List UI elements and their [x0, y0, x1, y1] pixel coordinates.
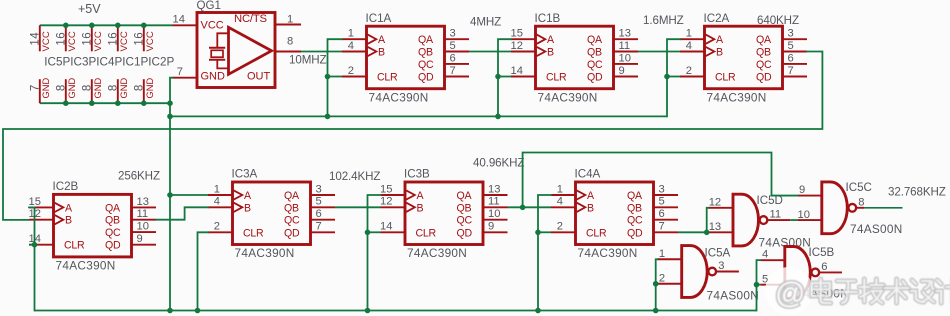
svg-text:3: 3 — [718, 260, 724, 272]
wire IC5D pin13 tap — [707, 231, 709, 233]
pin 12 (B) of IC1B — [511, 40, 536, 52]
svg-text:5: 5 — [316, 196, 322, 208]
pin 3 (QA) of IC2A — [783, 28, 808, 40]
power symbol IC4P GND pin 8 — [81, 78, 103, 104]
svg-text:IC5B: IC5B — [809, 246, 835, 259]
svg-text:5: 5 — [450, 40, 456, 52]
svg-text:VCC: VCC — [119, 31, 130, 51]
IC IC4A 74AC390N counter body — [576, 182, 654, 245]
svg-text:4: 4 — [348, 40, 354, 52]
svg-text:B: B — [417, 202, 424, 214]
svg-text:B: B — [65, 215, 72, 227]
svg-text:4: 4 — [762, 249, 768, 261]
svg-text:3: 3 — [788, 28, 794, 40]
svg-text:B: B — [244, 202, 251, 214]
wire 40.96KHZ: tap from B net up and over to IC5C pin 9 — [523, 153, 798, 208]
pin 2 (CLR) of IC3A — [208, 221, 233, 233]
junction on GND rail — [63, 100, 69, 106]
svg-text:16: 16 — [55, 32, 67, 46]
pin 10 input of IC5C — [797, 209, 822, 221]
junction on VCC rail — [141, 23, 147, 29]
svg-text:6: 6 — [821, 261, 827, 273]
svg-text:8: 8 — [55, 84, 67, 91]
junction gnd vertical / row1 CLR rail — [167, 114, 173, 120]
svg-text:VCC: VCC — [41, 31, 52, 51]
svg-text:IC5A: IC5A — [705, 247, 731, 260]
junction IC2B CLR — [32, 242, 38, 248]
svg-text:8: 8 — [107, 84, 119, 91]
svg-text:1: 1 — [287, 13, 293, 25]
wire GND rail — [40, 102, 170, 104]
svg-text:IC2A: IC2A — [704, 12, 730, 25]
svg-text:A: A — [417, 190, 425, 202]
svg-text:QA: QA — [756, 34, 772, 46]
pin 9 (QD) of IC2B — [132, 233, 157, 245]
pin 11 (QB) of IC1B — [614, 40, 639, 52]
power symbol IC2P GND pin 8 — [133, 78, 155, 104]
svg-text:2: 2 — [686, 65, 692, 77]
pin 15 (A) of IC1B — [511, 28, 536, 40]
junction IC1A vertical / CLR rail — [325, 114, 331, 120]
power symbol IC3P GND pin 8 — [55, 78, 77, 104]
svg-text:B: B — [547, 47, 554, 59]
svg-text:IC2B: IC2B — [53, 180, 79, 193]
junction IC4A CLR — [535, 230, 541, 236]
svg-text:3: 3 — [450, 28, 456, 40]
svg-text:QC: QC — [587, 59, 603, 71]
junction IC3B CLR — [365, 230, 371, 236]
svg-text:QD: QD — [457, 227, 473, 239]
junction gnd vertical / bottom rail — [167, 308, 173, 314]
svg-text:12: 12 — [709, 196, 721, 208]
pin 14 (CLR) of IC1B — [511, 65, 536, 77]
svg-text:9: 9 — [137, 233, 143, 245]
pin 1 (A) of IC3A — [208, 183, 233, 195]
pin 4 (B) of IC4A — [551, 196, 576, 208]
svg-text:8: 8 — [81, 84, 93, 91]
svg-text:40.96KHZ: 40.96KHZ — [473, 157, 524, 170]
svg-text:4MHZ: 4MHZ — [470, 16, 501, 29]
svg-text:14: 14 — [380, 221, 392, 233]
svg-text:12: 12 — [511, 40, 523, 52]
svg-text:8: 8 — [133, 84, 145, 91]
wire 10MHZ: QG1 OUT to IC1A B input — [301, 51, 342, 53]
pin 2 (CLR) of IC2A — [680, 65, 705, 77]
svg-text:IC5P: IC5P — [44, 55, 70, 68]
svg-text:7: 7 — [659, 221, 665, 233]
svg-text:QA: QA — [418, 34, 434, 46]
svg-text:12: 12 — [380, 196, 392, 208]
svg-text:640KHZ: 640KHZ — [757, 14, 799, 27]
svg-text:10: 10 — [488, 208, 500, 220]
svg-text:GND: GND — [119, 78, 129, 99]
wire IC2B CLR tap — [29, 244, 35, 246]
junction IC3A CLR vertical / bottom rail — [195, 308, 201, 314]
power symbol IC1P VCC pin 16 — [107, 25, 130, 51]
svg-text:13: 13 — [488, 183, 500, 195]
svg-text:QC: QC — [627, 215, 643, 227]
svg-text:+5V: +5V — [78, 2, 101, 16]
svg-text:74AS00N: 74AS00N — [850, 222, 903, 236]
wire IC1B input vertical — [498, 39, 511, 116]
svg-text:11: 11 — [619, 40, 631, 52]
pin 1 (A) of IC4A — [551, 183, 576, 195]
svg-text:7: 7 — [177, 66, 183, 78]
pin 14 (CLR) of IC2B — [29, 233, 54, 245]
wire 640KHZ: IC2A QB down, across, to IC2B B input — [3, 52, 822, 220]
pin 5 (QB) of IC1A — [445, 40, 470, 52]
pin 1 (A) of IC2A — [680, 28, 705, 40]
svg-text:10: 10 — [619, 52, 631, 64]
svg-text:GND: GND — [67, 78, 77, 99]
svg-text:QB: QB — [587, 47, 602, 59]
pin 4 (B) of IC1A — [342, 40, 367, 52]
wire IC5D input tie vertical — [707, 208, 709, 233]
pin 1 input of IC5A — [657, 248, 682, 260]
svg-text:74AC390N: 74AC390N — [538, 90, 598, 104]
wire 102.4KHZ: IC3A QB to IC3B B input — [335, 206, 381, 208]
svg-text:A: A — [378, 34, 386, 46]
svg-text:2: 2 — [659, 273, 665, 285]
wire IC1B CLR tap — [498, 76, 511, 78]
svg-text:IC4P: IC4P — [96, 55, 122, 68]
svg-text:B: B — [378, 47, 385, 59]
pin 7 (QD) of IC4A — [654, 221, 679, 233]
svg-text:QC: QC — [756, 59, 772, 71]
svg-text:GND: GND — [145, 78, 155, 99]
power symbol IC4P VCC pin 16 — [81, 25, 104, 51]
wire IC5A input tie vertical to bottom rail — [656, 259, 658, 310]
svg-text:QC: QC — [418, 59, 434, 71]
svg-text:4: 4 — [686, 40, 692, 52]
svg-text:QA: QA — [587, 34, 603, 46]
pin 13 (QA) of IC1B — [614, 28, 639, 40]
svg-text:15: 15 — [380, 183, 392, 195]
watermark translucent disc — [765, 267, 813, 315]
NAND gate IC5C 74AS00N body — [822, 182, 856, 234]
svg-text:QB: QB — [105, 215, 120, 227]
svg-text:6: 6 — [316, 208, 322, 220]
svg-text:6: 6 — [450, 52, 456, 64]
pin 1 (A) of IC1A — [342, 28, 367, 40]
oscillator QG1 body — [197, 13, 275, 88]
svg-text:QG1: QG1 — [197, 0, 221, 12]
svg-text:QD: QD — [627, 227, 643, 239]
svg-text:10: 10 — [798, 209, 810, 221]
pin 5 (QB) of IC2A — [783, 40, 808, 52]
svg-text:B: B — [587, 202, 594, 214]
svg-text:QD: QD — [587, 72, 603, 84]
pin 9 (QD) of IC1B — [614, 65, 639, 77]
pin 10 (QC) of IC1B — [614, 52, 639, 64]
svg-text:@: @ — [775, 277, 805, 310]
pin 11 output of IC5D — [767, 209, 791, 221]
junction IC4A vertical / bottom rail — [535, 308, 541, 314]
junction on VCC rail — [63, 23, 69, 29]
svg-text:7: 7 — [450, 65, 456, 77]
svg-text:QC: QC — [284, 215, 300, 227]
svg-text:74AS00N: 74AS00N — [707, 289, 760, 303]
svg-text:13: 13 — [619, 28, 631, 40]
wire bottom GND rail — [35, 310, 757, 312]
svg-text:74AC390N: 74AC390N — [707, 90, 767, 104]
svg-text:QB: QB — [627, 202, 642, 214]
junction on GND rail — [115, 100, 121, 106]
svg-text:10: 10 — [137, 221, 149, 233]
svg-text:9: 9 — [799, 184, 805, 196]
wire IC4A QD to IC5D inputs — [678, 231, 707, 233]
svg-text:CLR: CLR — [64, 240, 85, 252]
svg-text:QD: QD — [756, 72, 772, 84]
junction 40.96KHZ tap — [520, 205, 526, 211]
pin 9 (QD) of IC3B — [483, 221, 508, 233]
svg-text:74AC390N: 74AC390N — [56, 259, 116, 273]
IC IC3A 74AC390N counter body — [233, 182, 311, 245]
svg-text:1: 1 — [557, 183, 563, 195]
svg-text:A: A — [65, 202, 73, 214]
svg-text:IC1B: IC1B — [535, 12, 561, 25]
wire 256KHZ: IC2B QB jog up to IC3A B input — [156, 207, 208, 219]
pin 4 (B) of IC2A — [680, 40, 705, 52]
pin 2 (CLR) of IC1A — [342, 65, 367, 77]
svg-text:CLR: CLR — [546, 72, 567, 84]
pin 8 (OUT) of QG1 — [275, 36, 301, 52]
junction IC1B CLR — [495, 74, 501, 80]
pin 7 (QD) of IC1A — [445, 65, 470, 77]
svg-text:QB: QB — [457, 202, 472, 214]
power symbol IC2P VCC pin 16 — [133, 25, 156, 51]
pin 11 (QB) of IC3B — [483, 196, 508, 208]
wire IC1A CLR tap — [328, 76, 343, 78]
pin 14 (VCC) of QG1 — [173, 13, 198, 25]
power symbol IC5P GND pin 7 — [29, 78, 51, 104]
svg-text:A: A — [716, 34, 724, 46]
svg-text:11: 11 — [137, 208, 149, 220]
svg-text:QA: QA — [457, 190, 473, 202]
svg-text:16: 16 — [81, 32, 93, 46]
wire IC5B input tie vertical from bottom rail — [757, 260, 761, 310]
svg-text:8: 8 — [858, 196, 864, 208]
junction gnd vertical / IC3A A input — [167, 192, 173, 198]
wire IC1A input vertical (A to CLR rail) — [328, 39, 343, 116]
svg-text:CLR: CLR — [715, 72, 736, 84]
wire IC3B input vertical — [368, 195, 381, 311]
svg-text:GND: GND — [201, 71, 226, 83]
wire IC4A CLR tap — [538, 231, 551, 233]
svg-text:11: 11 — [488, 196, 500, 208]
IC IC3B 74AC390N counter body — [405, 182, 483, 245]
svg-text:QB: QB — [418, 47, 433, 59]
svg-text:1: 1 — [214, 183, 220, 195]
power symbol IC1P GND pin 8 — [107, 78, 129, 104]
svg-text:A: A — [587, 190, 595, 202]
pin 6 (QC) of IC1A — [445, 52, 470, 64]
pin 4 input of IC5B — [760, 249, 785, 261]
wire row1 CLR rail — [170, 115, 667, 117]
NAND gate IC5B 74AS00N body — [785, 247, 819, 299]
svg-text:6: 6 — [788, 52, 794, 64]
junction on VCC rail — [115, 23, 121, 29]
svg-text:B: B — [716, 47, 723, 59]
svg-text:16: 16 — [107, 32, 119, 46]
pin 5 (QB) of IC3A — [311, 196, 336, 208]
svg-text:13: 13 — [709, 221, 721, 233]
svg-text:15: 15 — [29, 196, 41, 208]
pin 7 (GND) of QG1 — [173, 66, 198, 78]
svg-text:QA: QA — [284, 190, 300, 202]
svg-text:VCC: VCC — [67, 31, 78, 51]
svg-text:IC3A: IC3A — [232, 168, 258, 181]
svg-text:A: A — [244, 190, 252, 202]
power symbol IC5P VCC pin 14 — [29, 25, 52, 51]
svg-text:4: 4 — [557, 196, 563, 208]
svg-text:13: 13 — [137, 196, 149, 208]
pin 9 input of IC5C — [797, 184, 822, 196]
svg-text:2: 2 — [557, 221, 563, 233]
pin 6 (QC) of IC4A — [654, 208, 679, 220]
wire 4MHZ: IC1A QB to IC1B B input — [469, 51, 511, 53]
svg-text:7: 7 — [788, 65, 794, 77]
svg-text:10MHZ: 10MHZ — [289, 54, 327, 67]
wire IC5D output to IC5C pin 10 — [790, 219, 797, 221]
svg-text:VCC: VCC — [93, 31, 104, 51]
wire IC5A pin2 tap — [656, 283, 658, 285]
pin 3 (QA) of IC3A — [311, 183, 336, 195]
svg-text:IC3B: IC3B — [404, 168, 430, 181]
svg-text:9: 9 — [619, 65, 625, 77]
svg-text:14: 14 — [173, 13, 185, 25]
svg-text:7: 7 — [316, 221, 322, 233]
pin 12 (B) of IC2B — [29, 208, 54, 220]
svg-text:IC4A: IC4A — [575, 168, 601, 181]
junction on VCC rail — [89, 23, 95, 29]
svg-text:QD: QD — [418, 72, 434, 84]
svg-text:QA: QA — [627, 190, 643, 202]
wire IC3B QB to IC4A B input — [508, 206, 552, 208]
svg-text:5: 5 — [788, 40, 794, 52]
svg-text:CLR: CLR — [243, 227, 264, 239]
pin 3 (QA) of IC4A — [654, 183, 679, 195]
pin 13 (QA) of IC2B — [132, 196, 157, 208]
pin 13 input of IC5D — [709, 221, 734, 233]
pin 7 (QD) of IC3A — [311, 221, 336, 233]
svg-text:3: 3 — [316, 183, 322, 195]
svg-text:3: 3 — [659, 183, 665, 195]
junction IC5A pin 2 — [653, 281, 659, 287]
pin 6 (QC) of IC3A — [311, 208, 336, 220]
svg-text:32.768KHZ: 32.768KHZ — [888, 185, 946, 198]
junction on GND rail — [89, 100, 95, 106]
junction on GND rail — [141, 100, 147, 106]
power symbol IC3P VCC pin 16 — [55, 25, 78, 51]
svg-text:256KHZ: 256KHZ — [118, 170, 160, 183]
svg-text:6: 6 — [659, 208, 665, 220]
junction IC5B pin 5 — [754, 282, 760, 288]
wire IC3A A input from ground vertical — [170, 194, 208, 196]
junction IC5D pin 13 — [704, 230, 710, 236]
svg-text:8: 8 — [287, 36, 293, 48]
svg-text:GND: GND — [41, 78, 51, 99]
wire IC2B A/CLR vertical to bottom rail — [29, 207, 35, 310]
pin 7 (QD) of IC2A — [783, 65, 808, 77]
wire IC3B CLR tap — [368, 231, 381, 233]
svg-text:4: 4 — [214, 196, 220, 208]
svg-text:9: 9 — [488, 221, 494, 233]
svg-text:QC: QC — [105, 227, 121, 239]
wire IC2A CLR tap — [667, 76, 680, 78]
svg-text:11: 11 — [770, 209, 782, 221]
pin 4 (B) of IC3A — [208, 196, 233, 208]
svg-text:NC/TS: NC/TS — [234, 13, 268, 25]
pin 12 input of IC5D — [709, 196, 734, 208]
svg-text:QC: QC — [457, 215, 473, 227]
svg-text:7: 7 — [29, 84, 41, 91]
svg-text:74AC390N: 74AC390N — [578, 246, 638, 260]
svg-text:74AC390N: 74AC390N — [407, 246, 467, 260]
wire QG1 GND down to ground rails — [170, 78, 173, 311]
svg-text:1: 1 — [686, 28, 692, 40]
junction IC5A vertical / bottom rail — [653, 308, 659, 314]
NAND gate IC5D 74AS00N body — [733, 194, 767, 246]
svg-text:QB: QB — [284, 202, 299, 214]
svg-text:VCC: VCC — [145, 31, 156, 51]
svg-text:2: 2 — [348, 65, 354, 77]
pin 14 (CLR) of IC3B — [380, 221, 405, 233]
svg-text:IC2P: IC2P — [148, 55, 174, 68]
svg-text:IC5C: IC5C — [846, 181, 872, 194]
pin 10 (QC) of IC2B — [132, 221, 157, 233]
svg-text:QA: QA — [105, 202, 121, 214]
svg-text:IC3P: IC3P — [70, 55, 96, 68]
junction IC2A CLR — [664, 74, 670, 80]
pin 6 output of IC5B — [819, 261, 843, 273]
svg-text:14: 14 — [511, 65, 523, 77]
svg-text:5: 5 — [659, 196, 665, 208]
pin 10 (QC) of IC3B — [483, 208, 508, 220]
wire VCC rail — [40, 24, 173, 26]
wire 1.6MHZ: IC1B QB to IC2A B input — [638, 51, 680, 53]
pin 15 (A) of IC3B — [380, 183, 405, 195]
svg-text:74AC390N: 74AC390N — [235, 246, 295, 260]
junction QG1 gnd / power GND rail — [167, 100, 173, 106]
svg-text:16: 16 — [133, 32, 145, 46]
svg-text:IC1P: IC1P — [122, 55, 148, 68]
IC IC2B 74AC390N counter body — [54, 194, 132, 257]
pin 15 (A) of IC2B — [29, 196, 54, 208]
pin 8 output of IC5C — [856, 196, 865, 208]
svg-text:QD: QD — [284, 227, 300, 239]
pin 3 output of IC5A — [715, 260, 739, 272]
IC IC1A 74AC390N counter body — [367, 26, 445, 88]
IC IC1B 74AC390N counter body — [536, 26, 614, 88]
pin 3 (QA) of IC1A — [445, 28, 470, 40]
svg-text:15: 15 — [511, 28, 523, 40]
pin 5 input of IC5B — [760, 273, 785, 285]
pin 11 (QB) of IC2B — [132, 208, 157, 220]
junction IC1B vertical / CLR rail — [495, 114, 501, 120]
wire IC2A input vertical — [667, 39, 680, 116]
wire 32.768KHZ output from IC5C pin 8 — [864, 207, 903, 209]
wire IC5B pin5 tap — [757, 284, 761, 286]
svg-text:1.6MHZ: 1.6MHZ — [643, 14, 684, 27]
svg-text:14: 14 — [29, 32, 41, 46]
svg-text:OUT: OUT — [247, 71, 271, 83]
pin 2 input of IC5A — [657, 273, 682, 285]
wire IC4A input vertical — [538, 195, 551, 311]
svg-text:QD: QD — [105, 240, 121, 252]
svg-text:CLR: CLR — [377, 72, 398, 84]
svg-text:A: A — [547, 34, 555, 46]
